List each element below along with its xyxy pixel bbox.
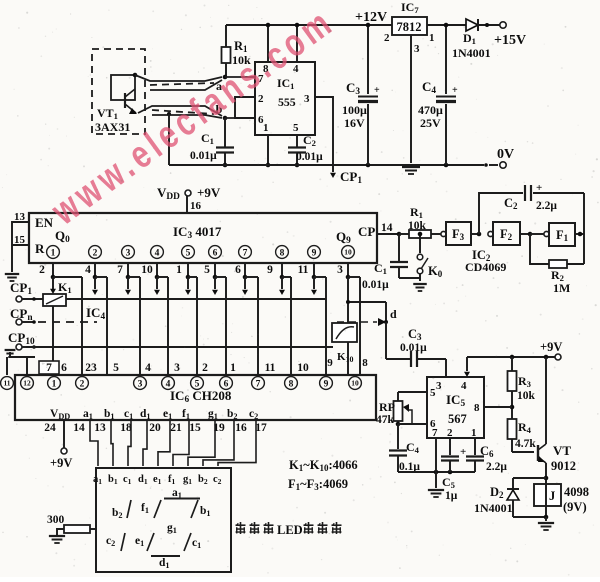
svg-text:K10: K10 — [337, 351, 354, 364]
svg-text:f1: f1 — [182, 408, 190, 421]
svg-text:6: 6 — [61, 362, 67, 374]
svg-text:2: 2 — [447, 427, 453, 439]
svg-text:1: 1 — [429, 32, 435, 44]
svg-text:CP: CP — [358, 224, 375, 239]
svg-text:+9V: +9V — [540, 340, 562, 354]
svg-text:D2: D2 — [490, 485, 504, 500]
svg-text:0V: 0V — [497, 147, 514, 162]
svg-text:C3: C3 — [346, 80, 360, 97]
svg-text:3: 3 — [138, 379, 143, 389]
svg-text:8: 8 — [474, 402, 480, 414]
svg-text:K1~K10:4066: K1~K10:4066 — [289, 458, 358, 473]
svg-text:4: 4 — [145, 362, 151, 374]
svg-text:7: 7 — [243, 248, 248, 258]
svg-text:CP1: CP1 — [340, 169, 362, 186]
svg-text:0.01μ: 0.01μ — [296, 151, 323, 163]
svg-text:1: 1 — [263, 122, 269, 134]
svg-text:g1: g1 — [208, 408, 218, 421]
svg-text:d1: d1 — [138, 474, 148, 486]
svg-text:J: J — [549, 489, 555, 503]
svg-text:11: 11 — [3, 379, 10, 388]
svg-text:3: 3 — [126, 248, 131, 258]
svg-text:c2: c2 — [106, 535, 115, 548]
svg-text:13: 13 — [94, 422, 106, 434]
svg-text:8: 8 — [362, 357, 368, 369]
svg-text:F1: F1 — [556, 228, 569, 243]
svg-text:+9V: +9V — [197, 185, 221, 200]
svg-text:e1: e1 — [163, 408, 172, 421]
svg-text:VT: VT — [553, 443, 571, 458]
svg-text:5: 5 — [113, 362, 119, 374]
svg-text:R1: R1 — [410, 205, 423, 220]
svg-text:2.2μ: 2.2μ — [486, 461, 507, 473]
svg-text:7: 7 — [256, 379, 261, 389]
svg-text:1μ: 1μ — [445, 490, 458, 502]
svg-text:1: 1 — [176, 264, 182, 276]
svg-text:14: 14 — [73, 422, 85, 434]
svg-text:R: R — [35, 241, 45, 256]
svg-text:C5: C5 — [442, 475, 455, 490]
svg-text:g1: g1 — [167, 522, 177, 535]
svg-text:15: 15 — [189, 422, 201, 434]
svg-text:5: 5 — [293, 122, 299, 134]
svg-text:C4: C4 — [406, 440, 420, 455]
svg-text:11: 11 — [265, 362, 276, 374]
svg-text:b1: b1 — [104, 408, 115, 421]
svg-text:3AX31: 3AX31 — [95, 120, 130, 134]
svg-text:23: 23 — [85, 362, 97, 374]
svg-text:11: 11 — [298, 264, 309, 276]
svg-text:3: 3 — [304, 93, 310, 105]
svg-text:8: 8 — [289, 379, 294, 389]
svg-text:2: 2 — [202, 362, 208, 374]
svg-text:1N4001: 1N4001 — [452, 46, 491, 60]
svg-text:10: 10 — [344, 248, 352, 257]
svg-text:d1: d1 — [140, 408, 151, 421]
svg-text:(9V): (9V) — [563, 500, 587, 514]
svg-text:a1: a1 — [83, 408, 93, 421]
svg-text:16V: 16V — [344, 116, 365, 130]
svg-text:10k: 10k — [408, 220, 427, 232]
svg-text:IC6 CH208: IC6 CH208 — [170, 388, 232, 405]
svg-text:b2: b2 — [198, 474, 208, 486]
svg-text:21: 21 — [170, 422, 182, 434]
svg-text:IC5: IC5 — [446, 392, 465, 409]
svg-text:f1: f1 — [168, 474, 176, 486]
svg-text:c1: c1 — [192, 537, 201, 550]
svg-text:e1: e1 — [153, 474, 162, 486]
svg-text:D1: D1 — [463, 31, 476, 46]
svg-text:6: 6 — [235, 264, 241, 276]
svg-text:567: 567 — [448, 412, 467, 426]
svg-text:0.01μ: 0.01μ — [190, 150, 217, 162]
svg-text:LED: LED — [277, 523, 303, 537]
svg-text:e1: e1 — [135, 535, 144, 548]
svg-text:5: 5 — [186, 248, 191, 258]
svg-text:1: 1 — [471, 427, 477, 439]
svg-text:+: + — [536, 182, 542, 194]
svg-text:555: 555 — [278, 95, 296, 109]
svg-text:IC4: IC4 — [86, 305, 105, 322]
svg-text:4.7k: 4.7k — [515, 438, 536, 450]
svg-text:R4: R4 — [518, 420, 532, 435]
svg-text:+: + — [452, 85, 458, 96]
svg-text:2: 2 — [384, 32, 390, 44]
svg-text:24: 24 — [44, 422, 56, 434]
svg-text:+15V: +15V — [494, 33, 526, 48]
svg-text:R3: R3 — [518, 374, 532, 389]
svg-text:b2: b2 — [112, 507, 123, 520]
svg-text:g1: g1 — [183, 474, 192, 486]
svg-text:5: 5 — [430, 387, 436, 399]
svg-text:F3: F3 — [452, 227, 465, 242]
svg-text:Q9: Q9 — [336, 229, 351, 246]
svg-text:www.elecfans.com: www.elecfans.com — [44, 0, 343, 233]
svg-text:2: 2 — [39, 264, 45, 276]
svg-text:300: 300 — [47, 514, 65, 526]
svg-text:C3: C3 — [408, 327, 422, 342]
svg-text:C6: C6 — [480, 444, 494, 459]
svg-text:3: 3 — [414, 43, 420, 55]
svg-text:d1: d1 — [159, 557, 170, 570]
svg-text:1: 1 — [230, 362, 236, 374]
svg-text:+: + — [460, 446, 466, 458]
svg-text:b1: b1 — [108, 474, 118, 486]
svg-text:25V: 25V — [420, 116, 441, 130]
svg-text:9: 9 — [327, 357, 333, 369]
svg-text:EN: EN — [35, 215, 54, 230]
svg-text:c1: c1 — [124, 408, 133, 421]
svg-text:VDD: VDD — [157, 185, 180, 202]
svg-text:CP1: CP1 — [10, 280, 32, 297]
svg-text:17: 17 — [255, 422, 267, 434]
svg-text:RP: RP — [379, 400, 395, 414]
svg-text:IC3 4017: IC3 4017 — [173, 224, 222, 241]
svg-text:9: 9 — [267, 264, 273, 276]
svg-text:6: 6 — [213, 248, 218, 258]
svg-text:10: 10 — [297, 362, 309, 374]
svg-text:C2: C2 — [504, 196, 518, 211]
svg-text:9: 9 — [312, 248, 317, 258]
svg-text:c2: c2 — [249, 408, 258, 421]
svg-text:1: 1 — [52, 379, 57, 389]
svg-text:b2: b2 — [227, 408, 238, 421]
svg-text:c2: c2 — [213, 474, 222, 486]
svg-text:F1~F3:4069: F1~F3:4069 — [288, 477, 348, 492]
svg-text:f1: f1 — [141, 502, 149, 515]
svg-text:7812: 7812 — [397, 20, 422, 34]
svg-text:1N4001: 1N4001 — [474, 501, 513, 515]
svg-text:47k: 47k — [376, 414, 395, 426]
svg-text:+: + — [374, 85, 380, 96]
svg-text:16: 16 — [235, 422, 247, 434]
svg-text:10k: 10k — [517, 390, 536, 402]
svg-text:K1: K1 — [58, 280, 72, 295]
svg-text:c1: c1 — [123, 474, 132, 486]
svg-text:9: 9 — [324, 379, 329, 389]
svg-text:2: 2 — [80, 379, 85, 389]
svg-text:470μ: 470μ — [418, 103, 443, 117]
svg-text:9012: 9012 — [551, 459, 576, 473]
svg-text:4: 4 — [85, 264, 91, 276]
svg-text:b1: b1 — [200, 505, 211, 518]
svg-text:IC7: IC7 — [401, 0, 419, 15]
svg-text:7: 7 — [46, 362, 52, 374]
svg-text:7: 7 — [117, 264, 123, 276]
svg-text:+9V: +9V — [50, 456, 72, 470]
svg-text:4098: 4098 — [564, 485, 589, 499]
svg-text:4: 4 — [461, 380, 467, 392]
svg-text:12: 12 — [23, 379, 31, 388]
svg-text:1M: 1M — [553, 281, 570, 295]
svg-text:16: 16 — [190, 200, 202, 212]
svg-text:a1: a1 — [93, 474, 102, 486]
svg-text:1: 1 — [51, 248, 56, 258]
svg-text:20: 20 — [149, 422, 161, 434]
svg-text:8: 8 — [280, 248, 285, 258]
svg-text:C4: C4 — [422, 79, 436, 96]
svg-text:0.01μ: 0.01μ — [362, 279, 389, 291]
svg-text:7: 7 — [432, 427, 438, 439]
svg-text:2: 2 — [93, 248, 98, 258]
svg-text:K0: K0 — [428, 264, 443, 279]
svg-text:0.01μ: 0.01μ — [400, 342, 427, 354]
svg-text:5: 5 — [204, 264, 210, 276]
svg-text:F2: F2 — [500, 227, 513, 242]
svg-text:14: 14 — [381, 222, 393, 234]
svg-text:3: 3 — [337, 264, 343, 276]
svg-text:2.2μ: 2.2μ — [536, 200, 557, 212]
svg-text:VT1: VT1 — [97, 106, 118, 121]
svg-text:d: d — [390, 307, 397, 321]
svg-text:+12V: +12V — [355, 10, 387, 25]
svg-text:4: 4 — [155, 248, 160, 258]
svg-text:CD4069: CD4069 — [465, 260, 506, 274]
svg-text:100μ: 100μ — [342, 103, 367, 117]
svg-text:C1: C1 — [374, 261, 387, 276]
svg-text:10: 10 — [351, 379, 359, 388]
